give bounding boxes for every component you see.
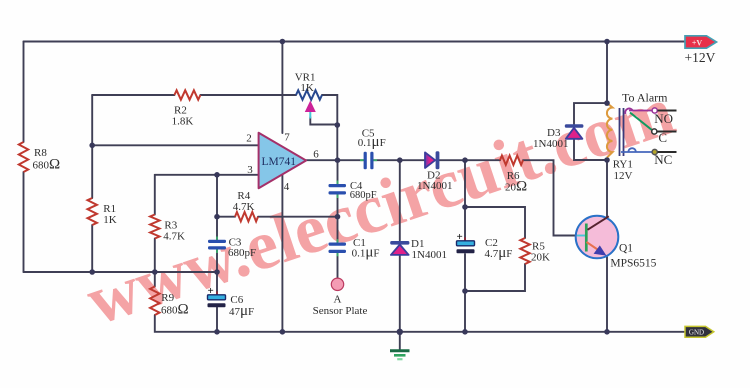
resistor R5 [520, 238, 529, 264]
watermark www.eleccircuit.com [78, 73, 684, 341]
svg-text:1N4001: 1N4001 [417, 180, 452, 192]
wire: bottom-left horizontal at y=272 [24, 271, 218, 273]
wire: node y=272 down to C6 [216, 272, 218, 294]
svg-text:RY1: RY1 [613, 159, 633, 171]
svg-text:680pF: 680pF [350, 190, 377, 201]
wire: relay bottom to Q1 collector [606, 160, 608, 218]
wire: R4 right side to C4 node [258, 216, 338, 218]
resistor R3 [150, 215, 159, 239]
svg-text:Sensor Plate: Sensor Plate [313, 305, 368, 317]
junction: C2 bottom / R5 node [462, 288, 468, 294]
resistor R9 [150, 287, 159, 316]
junction dots group [89, 39, 609, 335]
capacitor C3 680pF [208, 237, 226, 254]
svg-text:+12V: +12V [685, 50, 716, 65]
diode D2 1N4001 [425, 151, 439, 169]
junction: pin2 node [89, 143, 95, 149]
terminal NO [652, 108, 676, 113]
wire: Q1 emitter down to ground rail [606, 257, 608, 332]
wire: pin 7 vertical from top rail to op-amp [281, 42, 283, 134]
junction: relay branch on +12V rail [604, 39, 610, 45]
wire: VR1 wiper lead [310, 117, 337, 125]
wire: R3 bottom to y=272 [154, 239, 156, 273]
svg-text:GND: GND [689, 328, 704, 336]
svg-text:680Ω: 680Ω [161, 302, 189, 318]
wire: left vertical (top rail to R8) [23, 42, 25, 143]
wire: vertical x=92 from R2 corner to pin2 node [91, 95, 93, 198]
svg-text:NC: NC [654, 152, 672, 167]
wire: C4 node down through C4 [337, 160, 339, 184]
svg-text:R9: R9 [161, 292, 174, 304]
svg-text:1N4001: 1N4001 [412, 249, 447, 261]
junction: relay coil bottom [604, 157, 610, 163]
svg-text:6: 6 [313, 149, 319, 161]
svg-text:7: 7 [284, 132, 290, 144]
junction: output node at D1 [397, 157, 403, 163]
junction: C2 top / R5 node [462, 204, 468, 210]
relay NO contact wire [625, 108, 652, 114]
svg-text:4.7K: 4.7K [233, 201, 255, 213]
svg-text:+: + [208, 285, 214, 297]
svg-text:C: C [658, 130, 667, 145]
wire: C3 bottom to y=272 node [216, 250, 218, 273]
wire: C2 bottom to ground rail [464, 254, 466, 332]
svg-text:LM741: LM741 [262, 156, 297, 168]
junction: D1 ground node [397, 329, 403, 335]
wire: R2/VR1 horizontal feedback wire [92, 94, 174, 96]
wire: R5 top loop [465, 207, 525, 238]
svg-text:4.7K: 4.7K [163, 231, 185, 243]
diode D1 1N4001 [390, 241, 409, 255]
junction: C6 ground node [214, 329, 220, 335]
resistor R2 [174, 90, 200, 99]
wire: D3 bottom connection [574, 139, 607, 160]
terminal C [652, 129, 677, 134]
wire: C1 bottom to sensor plate [337, 253, 339, 278]
wire: C4 bottom to R4 node [337, 195, 339, 217]
relay RY1 core [620, 108, 624, 156]
junction: R3/R9 node [152, 269, 158, 275]
svg-text:4.7μF: 4.7μF [485, 245, 513, 261]
svg-text:47μF: 47μF [229, 303, 254, 319]
transistor Q1 MPS6515 [576, 216, 619, 259]
svg-text:680pF: 680pF [228, 247, 256, 259]
junction: Q1 emitter ground node [604, 329, 610, 335]
GND arrow [685, 326, 714, 337]
wire: VR1 right end down to wiper node [322, 95, 337, 125]
wire: left vertical (R8 to bottom-left wire) [23, 172, 25, 272]
junction: R1 bottom node [89, 269, 95, 275]
capacitor C2 4.7uF electrolytic [457, 231, 475, 253]
wire: C6 bottom to ground rail [216, 308, 218, 332]
relay NC contact wire [621, 148, 652, 152]
svg-text:Q1: Q1 [619, 243, 633, 255]
wire: R1 bottom to y=272 wire [91, 225, 93, 272]
svg-text:4: 4 [284, 181, 290, 193]
svg-text:MPS6515: MPS6515 [610, 258, 656, 270]
wire: pin 3 input wire [155, 174, 259, 176]
svg-text:2: 2 [246, 133, 252, 145]
svg-text:R3: R3 [164, 219, 177, 231]
relay contact pole (green) [630, 113, 653, 131]
wire: pin 2 input wire [92, 144, 258, 146]
wire: vertical B pin3 junction down to R4 node and C3 [216, 175, 218, 240]
junction: C2 ground node [462, 329, 468, 335]
junction: output node at C2 branch [462, 157, 468, 163]
wire: D2 cathode to R6 [440, 159, 501, 161]
terminal NC [652, 149, 676, 154]
resistor R8 [19, 142, 28, 172]
wire: R4 horizontal wire [217, 216, 235, 218]
junction: relay coil top [604, 100, 610, 106]
svg-text:20Ω: 20Ω [505, 179, 527, 195]
junction: VR1 wiper node [335, 122, 341, 128]
wire: ground rail [217, 331, 684, 333]
svg-text:0.1μF: 0.1μF [352, 245, 380, 261]
svg-text:20K: 20K [531, 252, 550, 264]
potentiometer VR1 [296, 90, 322, 118]
wire: +12V top rail [24, 41, 686, 43]
junction: pin3 node [214, 172, 220, 178]
relay RY1 coil [607, 103, 613, 158]
wire: R9 bottom to ground rail [155, 315, 217, 332]
junction: pin7 rail tap [280, 39, 286, 45]
junction: pin4 ground node [280, 329, 286, 335]
wire: R4 node down to C1 [337, 217, 339, 243]
junction: R4 right node [335, 214, 341, 220]
wire: pin 4 vertical from op-amp to ground rail [281, 175, 283, 332]
wire: D1 branch top [399, 160, 401, 240]
wire: C5 to D2 anode [374, 159, 426, 161]
capacitor C6 47uF electrolytic [208, 285, 226, 307]
op-amp U1 LM741 [259, 133, 307, 188]
wire: ground symbol stem [399, 332, 401, 350]
svg-text:680Ω: 680Ω [33, 157, 61, 173]
svg-text:+V: +V [692, 38, 703, 47]
sensor plate terminal A [331, 278, 343, 290]
svg-text:R8: R8 [34, 147, 47, 159]
svg-text:1K: 1K [103, 214, 117, 226]
svg-text:1N4001: 1N4001 [533, 138, 568, 150]
capacitor C5 0.1uF [360, 152, 377, 170]
junction: C3/C6 node [214, 269, 220, 275]
capacitor C1 0.1uF [329, 239, 347, 256]
wire: relay branch from top rail [606, 42, 608, 105]
resistor R1 [88, 198, 97, 225]
junction: R4 left node [214, 214, 220, 220]
diode D3 1N4001 [565, 124, 584, 139]
wire: D3 top connection [574, 103, 607, 124]
wire: D1 bottom to ground rail [399, 255, 401, 332]
wire: between R2 and VR1 [200, 94, 296, 96]
resistor R6 [500, 156, 523, 165]
wire: C2 branch from output line [464, 160, 466, 240]
wire: wiper node down to output [336, 125, 338, 160]
svg-text:1K: 1K [300, 82, 314, 94]
capacitor C4 680pF [329, 181, 347, 199]
svg-text:To Alarm: To Alarm [622, 90, 668, 104]
wire: op-amp output to C5 [306, 159, 363, 161]
svg-text:12V: 12V [614, 170, 633, 182]
ground symbol [390, 351, 410, 359]
svg-text:A: A [334, 294, 342, 306]
svg-text:NO: NO [654, 111, 673, 126]
svg-text:+: + [457, 231, 463, 243]
svg-text:3: 3 [247, 164, 253, 176]
wire: R5 bottom loop [465, 264, 525, 291]
+V supply arrow [685, 36, 717, 48]
wire: R9 top connection [154, 272, 156, 287]
svg-text:0.1μF: 0.1μF [358, 134, 386, 150]
wire: vertical A pin3 corner down to R3 [154, 175, 156, 215]
junction: output node at C4 [335, 157, 341, 163]
wire: R6 right to corner down to Q1 base [523, 160, 577, 235]
resistor R4 [235, 212, 258, 221]
svg-text:1.8K: 1.8K [172, 116, 194, 128]
